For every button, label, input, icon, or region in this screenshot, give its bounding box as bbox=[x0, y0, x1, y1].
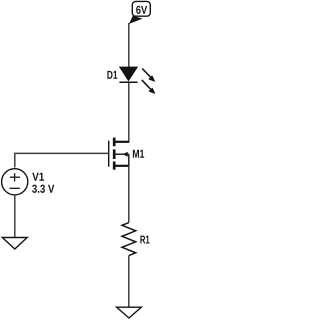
label V1 bbox=[32, 173, 44, 181]
wire V1 plus to M1 gate bbox=[15, 153, 109, 167]
LED D1 bbox=[119, 67, 154, 94]
value label 3.3 V bbox=[32, 185, 54, 193]
label R1 bbox=[140, 236, 149, 244]
ground (bottom, under R1) bbox=[117, 307, 142, 318]
wire D1 cathode to M1 drain bbox=[128, 83, 130, 142]
wire V1 minus to ground bbox=[14, 195, 16, 238]
transistor M1 (NMOS) bbox=[109, 138, 130, 170]
wire R1 to ground bbox=[128, 256, 130, 308]
resistor R1 bbox=[122, 223, 136, 256]
label D1 bbox=[107, 71, 117, 79]
ground (left, under V1) bbox=[2, 238, 27, 250]
wire M1 source to R1 bbox=[128, 166, 130, 223]
label M1 bbox=[133, 150, 144, 158]
wire 6V flag to D1 anode bbox=[128, 23, 130, 67]
voltage source V1 bbox=[2, 169, 28, 195]
net flag 6V box bbox=[129, 1, 151, 24]
net name label 6V bbox=[136, 6, 147, 14]
